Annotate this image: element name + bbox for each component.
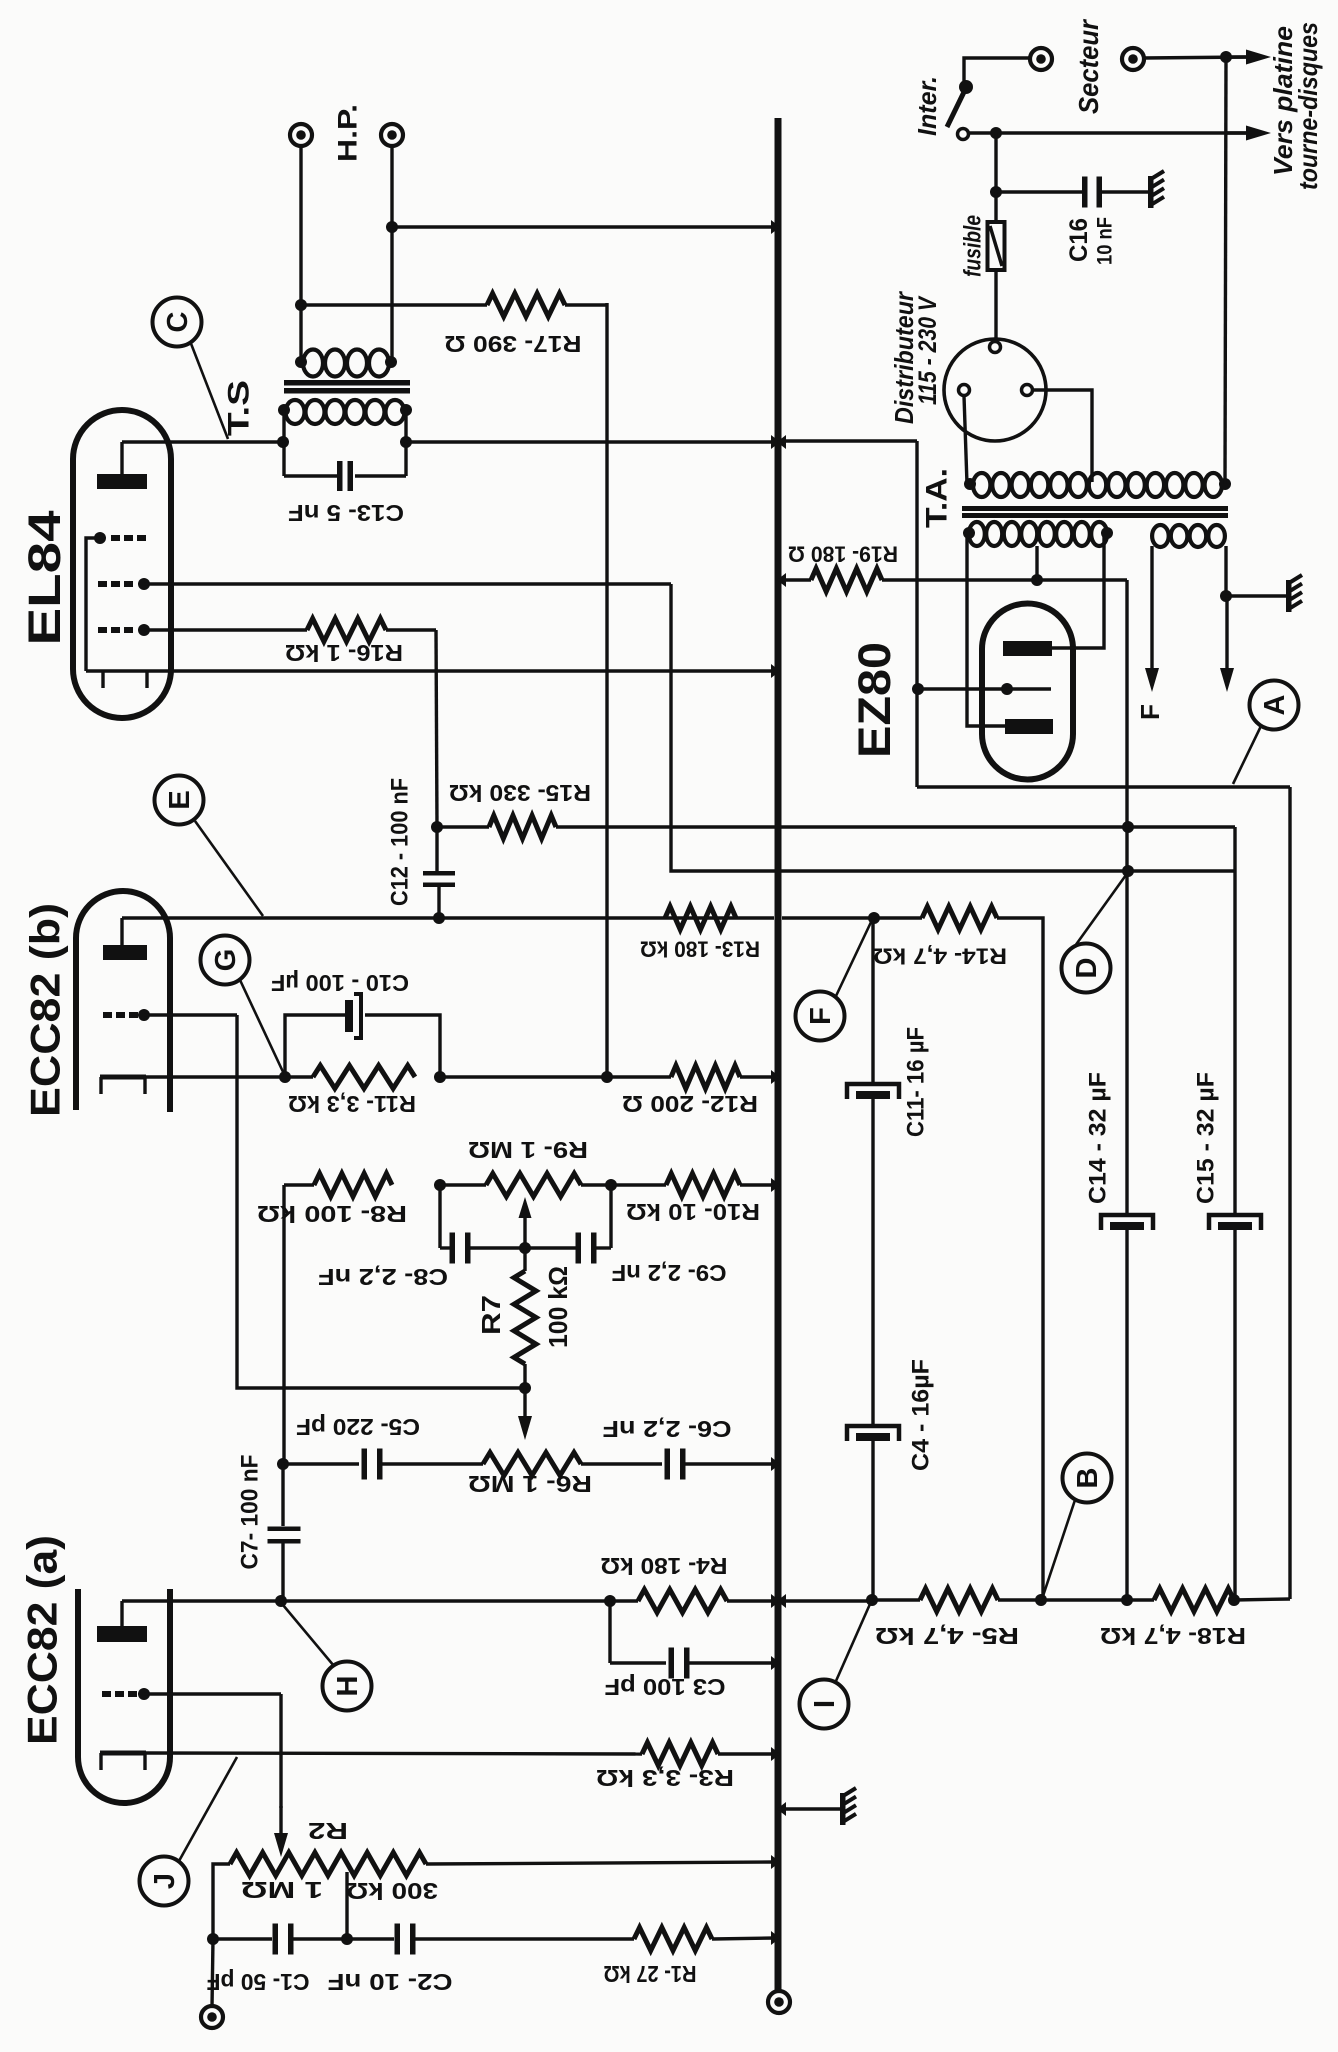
label Vers platine	[1268, 26, 1298, 176]
wire box left side	[915, 441, 918, 787]
wire heater right arrow	[1220, 596, 1234, 692]
label C8 value	[318, 1264, 448, 1290]
svg-text:C6- 2,2 nF: C6- 2,2 nF	[603, 1416, 732, 1442]
svg-text:Secteur: Secteur	[1073, 18, 1104, 114]
wire Secteur T2 to arrow	[1143, 57, 1250, 58]
node R9/R10 junction	[605, 1179, 617, 1191]
label R6 value	[468, 1471, 592, 1497]
arrow to turntable 1	[1226, 50, 1271, 65]
wire R17 right lead	[565, 303, 607, 306]
wire centre tap lead	[1035, 546, 1038, 580]
resistor R13	[665, 907, 736, 930]
label T.S	[223, 380, 256, 436]
wire A rail right riser	[1288, 787, 1291, 1599]
node heater ground junction	[1220, 590, 1232, 602]
label R7 value	[543, 1266, 573, 1348]
wire EZ80 anode 1 lead	[1052, 534, 1104, 648]
leader line A	[1233, 726, 1261, 784]
wire fuse to selector	[994, 270, 997, 342]
label R9 value	[468, 1137, 588, 1163]
svg-text:F: F	[805, 1007, 837, 1025]
voltage selector Distributeur	[944, 339, 1046, 441]
node label F circle	[796, 992, 845, 1041]
ECC82(a) grid dashes	[102, 1688, 150, 1700]
label C12 value	[386, 778, 413, 906]
wire R19 to centre tap	[882, 578, 1127, 581]
label C3 value	[605, 1674, 726, 1700]
EL84 grid g1 dashes	[98, 624, 150, 636]
svg-text:R6- 1 MΩ: R6- 1 MΩ	[468, 1471, 592, 1497]
node label C circle	[153, 298, 202, 347]
label C14 value	[1084, 1072, 1111, 1204]
node fuse tap junction	[990, 127, 1002, 139]
node label I circle	[800, 1680, 849, 1729]
svg-text:115 - 230 V: 115 - 230 V	[914, 295, 942, 405]
wire Secteur T1 lead	[964, 58, 1031, 81]
capacitor C9 box right	[609, 1185, 612, 1248]
label 115-230V	[914, 295, 942, 405]
label R15 value	[449, 780, 591, 806]
ECC82(b) cathode	[100, 1077, 146, 1094]
wire R15 row corner to C15 line	[1128, 825, 1235, 828]
node R7 bottom junction	[519, 1382, 531, 1394]
leader line G	[240, 980, 284, 1074]
svg-text:C15 - 32 µF: C15 - 32 µF	[1192, 1072, 1219, 1204]
EZ80 anode 1 plate	[1003, 641, 1052, 656]
label C7 value	[236, 1455, 263, 1570]
tube ECC82(a) envelope	[78, 1589, 170, 1803]
label C1 value	[207, 1969, 310, 1995]
wire EL84 anode line	[122, 440, 774, 443]
label C6 value	[603, 1416, 732, 1442]
node T.A. centre tap junction	[1031, 574, 1043, 586]
leader line F	[836, 920, 872, 996]
leader line C	[190, 341, 228, 439]
wire R1 to bus	[712, 1938, 775, 1939]
resistor R2 potentiometer	[230, 1853, 775, 1876]
capacitor C8 box left	[438, 1185, 441, 1248]
label ECC82 (b)	[22, 903, 69, 1117]
wire R12 to bus	[740, 1075, 775, 1078]
label C4 value	[907, 1359, 934, 1471]
node T.S primary left on anode wire	[277, 436, 289, 448]
label R16 value	[285, 640, 403, 666]
capacitor C3 branch	[610, 1601, 775, 1679]
wire ECC82(b) anode row	[122, 916, 922, 919]
node F junction	[868, 912, 880, 924]
node C1 left junction	[207, 1933, 219, 1945]
wire R17 vertical feedback line	[605, 303, 608, 1077]
mains terminal Secteur 2	[1122, 48, 1144, 70]
ECC82(a) cathode	[100, 1753, 146, 1770]
svg-text:C10 - 100 µF: C10 - 100 µF	[271, 970, 409, 996]
resistor R18	[1154, 1589, 1234, 1612]
label Secteur	[1073, 18, 1104, 114]
wire R2 tap	[345, 1872, 348, 1939]
wire C16 node to fuse	[994, 192, 997, 222]
wire R5 leads	[872, 1598, 1041, 1601]
wire R18 to A rail	[1234, 1599, 1290, 1600]
resistor R15	[489, 816, 556, 839]
capacitor C10 box	[285, 1015, 440, 1077]
wire switched line	[969, 131, 1250, 134]
ground bus	[775, 118, 782, 1992]
label tourne-disques	[1293, 22, 1323, 190]
capacitor C10	[345, 994, 361, 1038]
transformer T.A. heater winding	[1152, 525, 1225, 547]
svg-text:C5- 220 pF: C5- 220 pF	[296, 1414, 420, 1440]
label T.A.	[921, 468, 954, 528]
wire tone stack left riser	[282, 1185, 285, 1464]
node label A circle	[1250, 681, 1299, 730]
ECC82(b) grid dashes	[103, 1009, 150, 1021]
wire H.P. terminal 1 stem	[299, 146, 302, 362]
wire F node riser to C11	[871, 918, 874, 1084]
wire selector tap to primary	[1033, 390, 1092, 482]
label F	[1135, 704, 1165, 720]
svg-text:G: G	[210, 949, 242, 972]
transformer T.A. HT secondary	[963, 522, 1113, 546]
transformer T.S secondary	[295, 350, 397, 377]
R9 wiper arrow	[519, 1197, 532, 1248]
svg-text:fusible: fusible	[959, 215, 986, 277]
wire R4 to bus	[727, 1599, 775, 1602]
label R2 value 300k	[346, 1878, 438, 1904]
wire A rail bottom	[917, 785, 1290, 788]
svg-text:300 kΩ: 300 kΩ	[346, 1878, 438, 1904]
wire switch to C16 node	[994, 133, 997, 192]
node C12 bottom junction	[433, 912, 445, 924]
label R5 value	[875, 1623, 1019, 1649]
node feedback/C4 junction on cathode row	[601, 1071, 613, 1083]
wire heater winding right lead	[1224, 546, 1227, 596]
ground symbol heater	[1286, 575, 1302, 612]
wire ECC82(a) anode row	[122, 1599, 638, 1602]
R7 wiper arrow to R6	[518, 1388, 532, 1440]
resistor R14	[922, 907, 997, 930]
wire HP2 to ground bus	[392, 225, 778, 228]
label R12 value	[622, 1091, 758, 1117]
node T.S primary right	[400, 436, 412, 448]
speaker terminal H.P. 1	[290, 124, 312, 146]
transformer T.A. core	[962, 506, 1228, 518]
node label H circle	[323, 1662, 372, 1711]
svg-text:R9- 1 MΩ: R9- 1 MΩ	[468, 1137, 588, 1163]
svg-text:R18- 4,7 kΩ: R18- 4,7 kΩ	[1100, 1623, 1246, 1649]
capacitor C14	[1101, 1215, 1153, 1600]
label R4 value	[601, 1553, 728, 1579]
svg-text:J: J	[149, 1873, 181, 1889]
node G junction	[279, 1071, 291, 1083]
transformer T.A. primary	[964, 473, 1231, 497]
wire heater to ground	[1226, 594, 1286, 597]
resistor R16	[307, 619, 386, 642]
svg-text:E: E	[164, 790, 196, 809]
node C16 junction	[990, 186, 1002, 198]
node C8/C9 wiper junction	[519, 1242, 531, 1254]
svg-text:C8- 2,2 nF: C8- 2,2 nF	[318, 1264, 448, 1290]
wire R11 to R12	[440, 1075, 671, 1078]
label C16 value	[1093, 217, 1116, 265]
wire selector left pin to primary	[964, 396, 967, 484]
capacitor C11	[847, 1084, 899, 1426]
transformer T.S core	[284, 380, 410, 394]
node R11 right junction	[434, 1071, 446, 1083]
svg-text:C7- 100 nF: C7- 100 nF	[236, 1455, 263, 1570]
svg-text:R7: R7	[476, 1295, 506, 1335]
bus bottom terminal	[768, 1991, 790, 2013]
label C11 value	[902, 1027, 929, 1137]
capacitor C13	[284, 461, 406, 491]
wire R15 row	[437, 825, 1128, 828]
node D junction	[1122, 865, 1134, 877]
wire input terminal stem	[212, 1939, 213, 2007]
wire box top from bus	[784, 439, 917, 442]
wire g2 drop to D row	[671, 584, 1235, 871]
ECC82(a) anode plate	[97, 1626, 147, 1642]
tube EL84 envelope	[73, 410, 171, 718]
label C5 value	[296, 1414, 420, 1440]
node R18 right junction	[1228, 1594, 1240, 1606]
label ECC82 (a)	[19, 1535, 66, 1745]
bus junction blobs	[771, 220, 786, 1945]
EL84 grid g2 dashes	[98, 578, 150, 590]
capacitor C7	[268, 1464, 301, 1601]
svg-text:R2: R2	[308, 1818, 348, 1844]
capacitor C16	[996, 177, 1148, 208]
wire bus to I node	[782, 1599, 872, 1602]
label C9 value	[612, 1260, 727, 1286]
svg-text:ECC82 (a): ECC82 (a)	[19, 1535, 66, 1745]
svg-text:100 kΩ: 100 kΩ	[543, 1266, 573, 1348]
resistor R6 potentiometer	[483, 1453, 581, 1476]
label EL84	[19, 511, 70, 646]
svg-text:C9- 2,2 nF: C9- 2,2 nF	[612, 1260, 727, 1286]
svg-text:R15- 330 kΩ: R15- 330 kΩ	[449, 780, 591, 806]
wire mains down to primary	[1225, 57, 1226, 484]
node R15/R16/C12 junction	[431, 821, 443, 833]
R2 wiper arrow	[274, 1806, 288, 1857]
label H.P.	[332, 104, 362, 162]
svg-text:C14 - 32 µF: C14 - 32 µF	[1084, 1072, 1111, 1204]
svg-text:T.A.: T.A.	[921, 468, 954, 528]
svg-text:1 MΩ: 1 MΩ	[241, 1877, 323, 1903]
wire T.S primary left lead	[282, 410, 285, 442]
svg-text:EZ80: EZ80	[849, 642, 900, 758]
label R17 value	[445, 331, 582, 357]
wire C14 riser	[1125, 580, 1128, 1214]
wire R9 leads	[440, 1183, 611, 1186]
svg-text:R19- 180 Ω: R19- 180 Ω	[788, 541, 898, 566]
label EZ80	[849, 642, 900, 758]
wire R2 left lead	[213, 1864, 230, 1939]
label C15 value	[1192, 1072, 1219, 1204]
svg-text:H: H	[332, 1676, 364, 1697]
svg-text:C2- 10 nF: C2- 10 nF	[328, 1969, 453, 1995]
svg-text:R5- 4,7 kΩ: R5- 4,7 kΩ	[875, 1623, 1019, 1649]
svg-text:C4 - 16µF: C4 - 16µF	[907, 1359, 934, 1471]
label R18 value	[1100, 1623, 1246, 1649]
transformer T.S primary	[278, 400, 412, 424]
capacitor C4	[847, 1426, 899, 1600]
capacitor C12	[423, 827, 455, 918]
capacitor C9	[530, 1233, 611, 1264]
label R10 value	[626, 1199, 760, 1225]
svg-text:D: D	[1071, 958, 1103, 979]
tube EZ80 envelope	[982, 604, 1073, 780]
ECC82(b) anode lead	[120, 918, 123, 945]
label R1 value	[604, 1961, 697, 1987]
resistor R1	[634, 1928, 712, 1951]
wire R3 to bus	[718, 1752, 775, 1755]
EZ80 heater	[919, 683, 1051, 695]
capacitor C5	[283, 1449, 483, 1480]
leader line B	[1043, 1500, 1075, 1596]
label C13 value	[288, 500, 404, 526]
node B junction	[1035, 1594, 1047, 1606]
label R8 value	[257, 1201, 407, 1227]
svg-text:R1- 27 kΩ: R1- 27 kΩ	[604, 1961, 697, 1987]
EL84 g3 internal strap	[86, 538, 100, 671]
wire R8 left lead	[284, 1183, 314, 1186]
label R13 value	[640, 936, 760, 961]
resistor R9 potentiometer	[486, 1174, 581, 1197]
node label E circle	[155, 776, 204, 825]
svg-text:ECC82 (b): ECC82 (b)	[22, 903, 69, 1117]
capacitor C6	[581, 1449, 775, 1480]
svg-text:R13- 180 kΩ: R13- 180 kΩ	[640, 936, 760, 961]
svg-text:B: B	[1072, 1468, 1104, 1489]
wire ECC82(a) cathode row	[146, 1753, 642, 1754]
wire R16 right lead	[386, 630, 437, 827]
svg-text:A: A	[1259, 694, 1291, 715]
svg-text:I: I	[809, 1700, 841, 1708]
switch Inter. lever	[947, 92, 964, 127]
label R2	[308, 1818, 348, 1844]
svg-text:R4- 180 kΩ: R4- 180 kΩ	[601, 1553, 728, 1579]
node heater tap on box side	[912, 683, 924, 695]
capacitor C2	[352, 1924, 634, 1955]
wire R17 feed from HP1 node	[301, 303, 487, 306]
wire EL84 g2 line	[144, 582, 671, 585]
input terminal	[201, 2006, 223, 2028]
resistor R8	[314, 1174, 392, 1197]
node label D circle	[1062, 944, 1111, 993]
node T2 junction	[1220, 51, 1232, 63]
mains terminal Secteur 1	[1030, 48, 1052, 70]
fuse fusible	[988, 222, 1005, 270]
label Distributeur	[889, 290, 919, 424]
node R4/C3 junction	[604, 1595, 616, 1607]
wire T.S primary right lead	[404, 410, 407, 442]
svg-text:H.P.: H.P.	[332, 104, 362, 162]
label Inter.	[912, 76, 942, 136]
svg-text:R3- 3,3 kΩ: R3- 3,3 kΩ	[596, 1765, 734, 1791]
label C16	[1065, 218, 1093, 262]
leader line D	[1075, 875, 1126, 946]
node I junction	[866, 1594, 878, 1606]
EL84 heater pins	[103, 671, 147, 688]
resistor R3	[642, 1743, 718, 1766]
label R2 value 1M	[241, 1877, 323, 1903]
capacitor C8	[440, 1233, 520, 1264]
EZ80 anode 2 plate	[1005, 719, 1053, 734]
svg-text:C12 - 100 nF: C12 - 100 nF	[386, 778, 413, 906]
svg-text:C13- 5 nF: C13- 5 nF	[288, 500, 404, 526]
svg-text:10 nF: 10 nF	[1093, 217, 1116, 265]
resistor R4	[638, 1590, 727, 1613]
svg-text:T.S: T.S	[223, 380, 256, 436]
resistor R19	[811, 569, 882, 592]
tube ECC82(b) envelope	[76, 891, 170, 1112]
leader line J	[179, 1757, 237, 1861]
resistor R10	[666, 1174, 740, 1197]
speaker terminal H.P. 2	[381, 124, 403, 146]
capacitor C13 box right	[404, 442, 407, 476]
arrow to turntable 2	[1226, 126, 1271, 141]
svg-text:tourne-disques: tourne-disques	[1293, 22, 1323, 190]
svg-text:R10- 10 kΩ: R10- 10 kΩ	[626, 1199, 760, 1225]
ground symbol C16	[1148, 171, 1164, 208]
label R11 value	[288, 1091, 416, 1117]
wire B to C14 node	[1041, 1598, 1154, 1601]
node label B circle	[1063, 1454, 1112, 1503]
label R19 value	[788, 541, 898, 566]
svg-text:C: C	[162, 311, 194, 332]
wire R14 to B node	[997, 918, 1043, 1600]
svg-text:C3 100 pF: C3 100 pF	[605, 1674, 726, 1700]
EL84 anode plate	[97, 474, 147, 489]
wire EL84 g1 to R16	[144, 628, 307, 631]
node junction on HP1 stem	[295, 299, 307, 311]
wire EZ80 anode 2 lead	[967, 534, 1005, 726]
svg-text:R16- 1 kΩ: R16- 1 kΩ	[285, 640, 403, 666]
label R3 value	[596, 1765, 734, 1791]
svg-text:R8- 100 kΩ: R8- 100 kΩ	[257, 1201, 407, 1227]
svg-text:F: F	[1135, 704, 1165, 720]
EL84 anode lead	[120, 442, 123, 474]
EL84 grid g3 dashes	[94, 532, 146, 544]
node R8/R9 junction	[434, 1179, 446, 1191]
wire R19 from bus	[782, 578, 811, 581]
capacitor C15	[1209, 1215, 1261, 1600]
ECC82(a) anode lead	[120, 1601, 123, 1626]
wire R10 leads	[611, 1183, 775, 1186]
label C10 value	[271, 970, 409, 996]
ECC82(b) anode plate	[103, 945, 147, 960]
wire EL84 cathode line to bus	[86, 669, 775, 672]
label R14 value	[873, 943, 1007, 968]
capacitor C1	[213, 1924, 342, 1955]
wire ECC82(b) cathode row	[146, 1075, 313, 1078]
svg-text:R14- 4,7 kΩ: R14- 4,7 kΩ	[873, 943, 1007, 968]
svg-text:C11- 16 µF: C11- 16 µF	[902, 1027, 929, 1137]
svg-text:C16: C16	[1065, 218, 1093, 262]
node C1/C2 junction	[341, 1933, 353, 1945]
svg-text:EL84: EL84	[19, 511, 70, 646]
ground symbol at bus	[782, 1788, 856, 1825]
leader line H	[283, 1605, 334, 1666]
svg-text:R12- 200 Ω: R12- 200 Ω	[622, 1091, 758, 1117]
resistor R11	[313, 1066, 415, 1089]
label R7	[476, 1295, 506, 1335]
node junction on HP2 stem	[386, 221, 398, 233]
capacitor C13 box left	[282, 442, 285, 476]
svg-text:Inter.: Inter.	[912, 76, 942, 136]
node label G circle	[201, 936, 250, 985]
wire H.P. terminal 2 stem	[390, 146, 393, 362]
resistor R5	[920, 1589, 998, 1612]
